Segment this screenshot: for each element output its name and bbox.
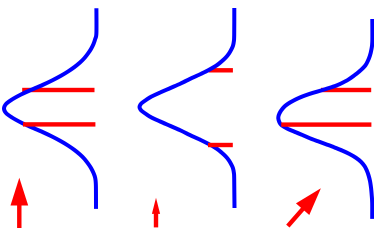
mode line 3b (lower red, panel 3) [281, 122, 371, 126]
pump arrow 2 (vertical, small) [152, 198, 160, 228]
gain curve 1 (left, blue) [4, 8, 96, 209]
pump arrow 1 (vertical, large) [11, 178, 29, 228]
pump arrow 3 (tilted, large) [281, 182, 327, 232]
gain curve 2 (middle, blue) [140, 8, 235, 208]
mode line 1a (upper red, panel 1) [22, 88, 94, 92]
gain curve 3 (right, blue) [278, 19, 372, 219]
mode line 3a (upper red, panel 3) [321, 88, 371, 92]
mode line 1b (lower red, panel 1) [23, 122, 95, 126]
mode line 2a (upper red, panel 2) [208, 68, 233, 72]
mode line 2b (lower red, panel 2) [208, 143, 233, 147]
